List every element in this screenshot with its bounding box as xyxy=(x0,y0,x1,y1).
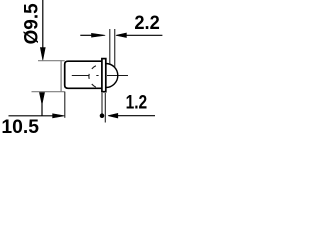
dimension 2.2: left arrow pointing right xyxy=(80,33,105,37)
extension line, collar face extended up xyxy=(109,29,111,64)
part white body fill xyxy=(65,61,102,88)
extension line, cylinder top edge (grey horizontal) xyxy=(38,60,65,62)
dimension Ø9.5: vertical line with down arrow xyxy=(40,0,45,60)
ball end (solid, protruding) xyxy=(106,64,118,88)
svg-text:1.2: 1.2 xyxy=(126,92,148,114)
collar / flange xyxy=(102,59,106,92)
extension line, vertical below cylinder left end xyxy=(64,92,66,118)
svg-text:2.2: 2.2 xyxy=(134,12,159,34)
dimension 1.2: arrow pointing left, with tail xyxy=(108,113,155,118)
dashed arc (ball pressed-in position, hidden line) xyxy=(89,66,96,87)
extension line, collar back face extended down xyxy=(101,93,103,114)
cylinder body (sleeve) outline xyxy=(65,61,102,88)
extension line, mounting surface (grey horizontal) xyxy=(32,91,65,93)
dimension 2.2: right arrow pointing left, with tail xyxy=(116,33,162,38)
dimension 1.2: dot on reference line xyxy=(100,113,105,118)
drill hole bottom line (grey vertical) xyxy=(60,60,62,92)
dimension 10.5: horizontal line with right arrow xyxy=(9,114,65,118)
extension line, ball protrusion plane extended up xyxy=(114,29,116,67)
dimension 10.5: up arrow at surface line xyxy=(39,93,44,116)
centerline (dash-dot axis of pin) xyxy=(72,75,128,77)
extension line, collar front face extended down xyxy=(104,93,106,123)
svg-text:10.5: 10.5 xyxy=(1,116,39,134)
svg-text:Ø9.5: Ø9.5 xyxy=(21,3,43,44)
